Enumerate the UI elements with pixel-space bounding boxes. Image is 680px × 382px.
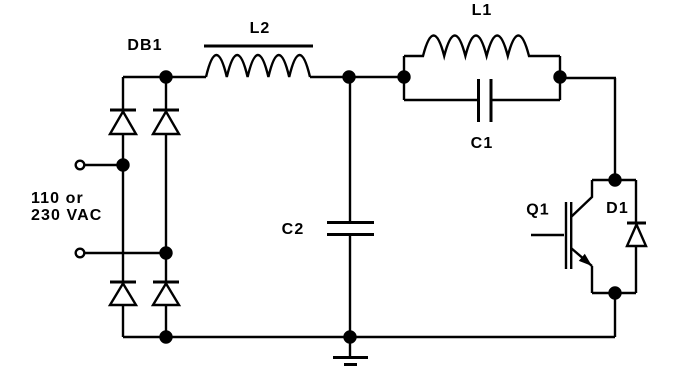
node: C2 top junction (344, 72, 355, 83)
ground (333, 337, 368, 365)
svg-text:230 VAC: 230 VAC (31, 207, 102, 224)
diode DB1 bottom-left (110, 282, 136, 305)
wire: tank bottom right (492, 99, 560, 101)
node: tank left (399, 72, 410, 83)
terminal AC input top (76, 161, 85, 170)
wire: bottom rail (123, 336, 615, 338)
diode DB1 top-right (153, 110, 179, 134)
wire: terminal 2 to bridge right branch (85, 252, 166, 254)
wire: top rail bridge to L2 (123, 76, 206, 78)
label 110 or 230 VAC (31, 190, 102, 224)
node: bridge top junction (161, 72, 172, 83)
wire: tank right edge (559, 56, 561, 100)
wire: Q1 collector lead (571, 180, 615, 217)
diode D1 (627, 223, 646, 246)
node: ground junction (345, 332, 356, 343)
node: Q1/D1 bottom junction (610, 288, 621, 299)
wire: tank left edge (403, 56, 405, 100)
capacitor C1 (479, 79, 492, 122)
wire: tank bottom left (404, 99, 477, 101)
wire: bridge right branch vertical (165, 77, 167, 337)
svg-text:L2: L2 (250, 20, 271, 37)
node: Q1/D1 top junction (610, 175, 621, 186)
capacitor C2 (327, 223, 374, 235)
wire: C2 branch vertical (349, 77, 351, 337)
wire: Q1 emitter to bottom junction (592, 292, 615, 294)
diode DB1 bottom-right (153, 282, 179, 305)
wire: bottom junction to ground rail (614, 293, 616, 337)
svg-text:110 or: 110 or (31, 190, 84, 207)
svg-text:L1: L1 (472, 2, 493, 19)
wire: D1 branch (615, 180, 636, 293)
wire: L2 to tank (310, 76, 404, 78)
node: junction terminal1/left branch (118, 160, 129, 171)
node: junction terminal2/right branch (161, 248, 172, 259)
node: bridge bottom junction (161, 332, 172, 343)
transistor Q1 IGBT (531, 202, 592, 293)
wire: bridge left branch vertical (122, 77, 124, 337)
diode DB1 top-left (110, 110, 136, 134)
svg-text:C2: C2 (282, 221, 305, 238)
svg-text:DB1: DB1 (127, 37, 162, 54)
svg-text:C1: C1 (471, 135, 494, 152)
inductor L1 (404, 36, 560, 57)
svg-text:Q1: Q1 (526, 202, 550, 219)
inductor L2 (204, 46, 313, 77)
terminal AC input bottom (76, 249, 85, 258)
wire: tank to switch branch (560, 78, 616, 180)
wire: terminal 1 to bridge left branch (85, 164, 123, 166)
svg-text:D1: D1 (606, 200, 629, 217)
node: tank right (555, 72, 566, 83)
